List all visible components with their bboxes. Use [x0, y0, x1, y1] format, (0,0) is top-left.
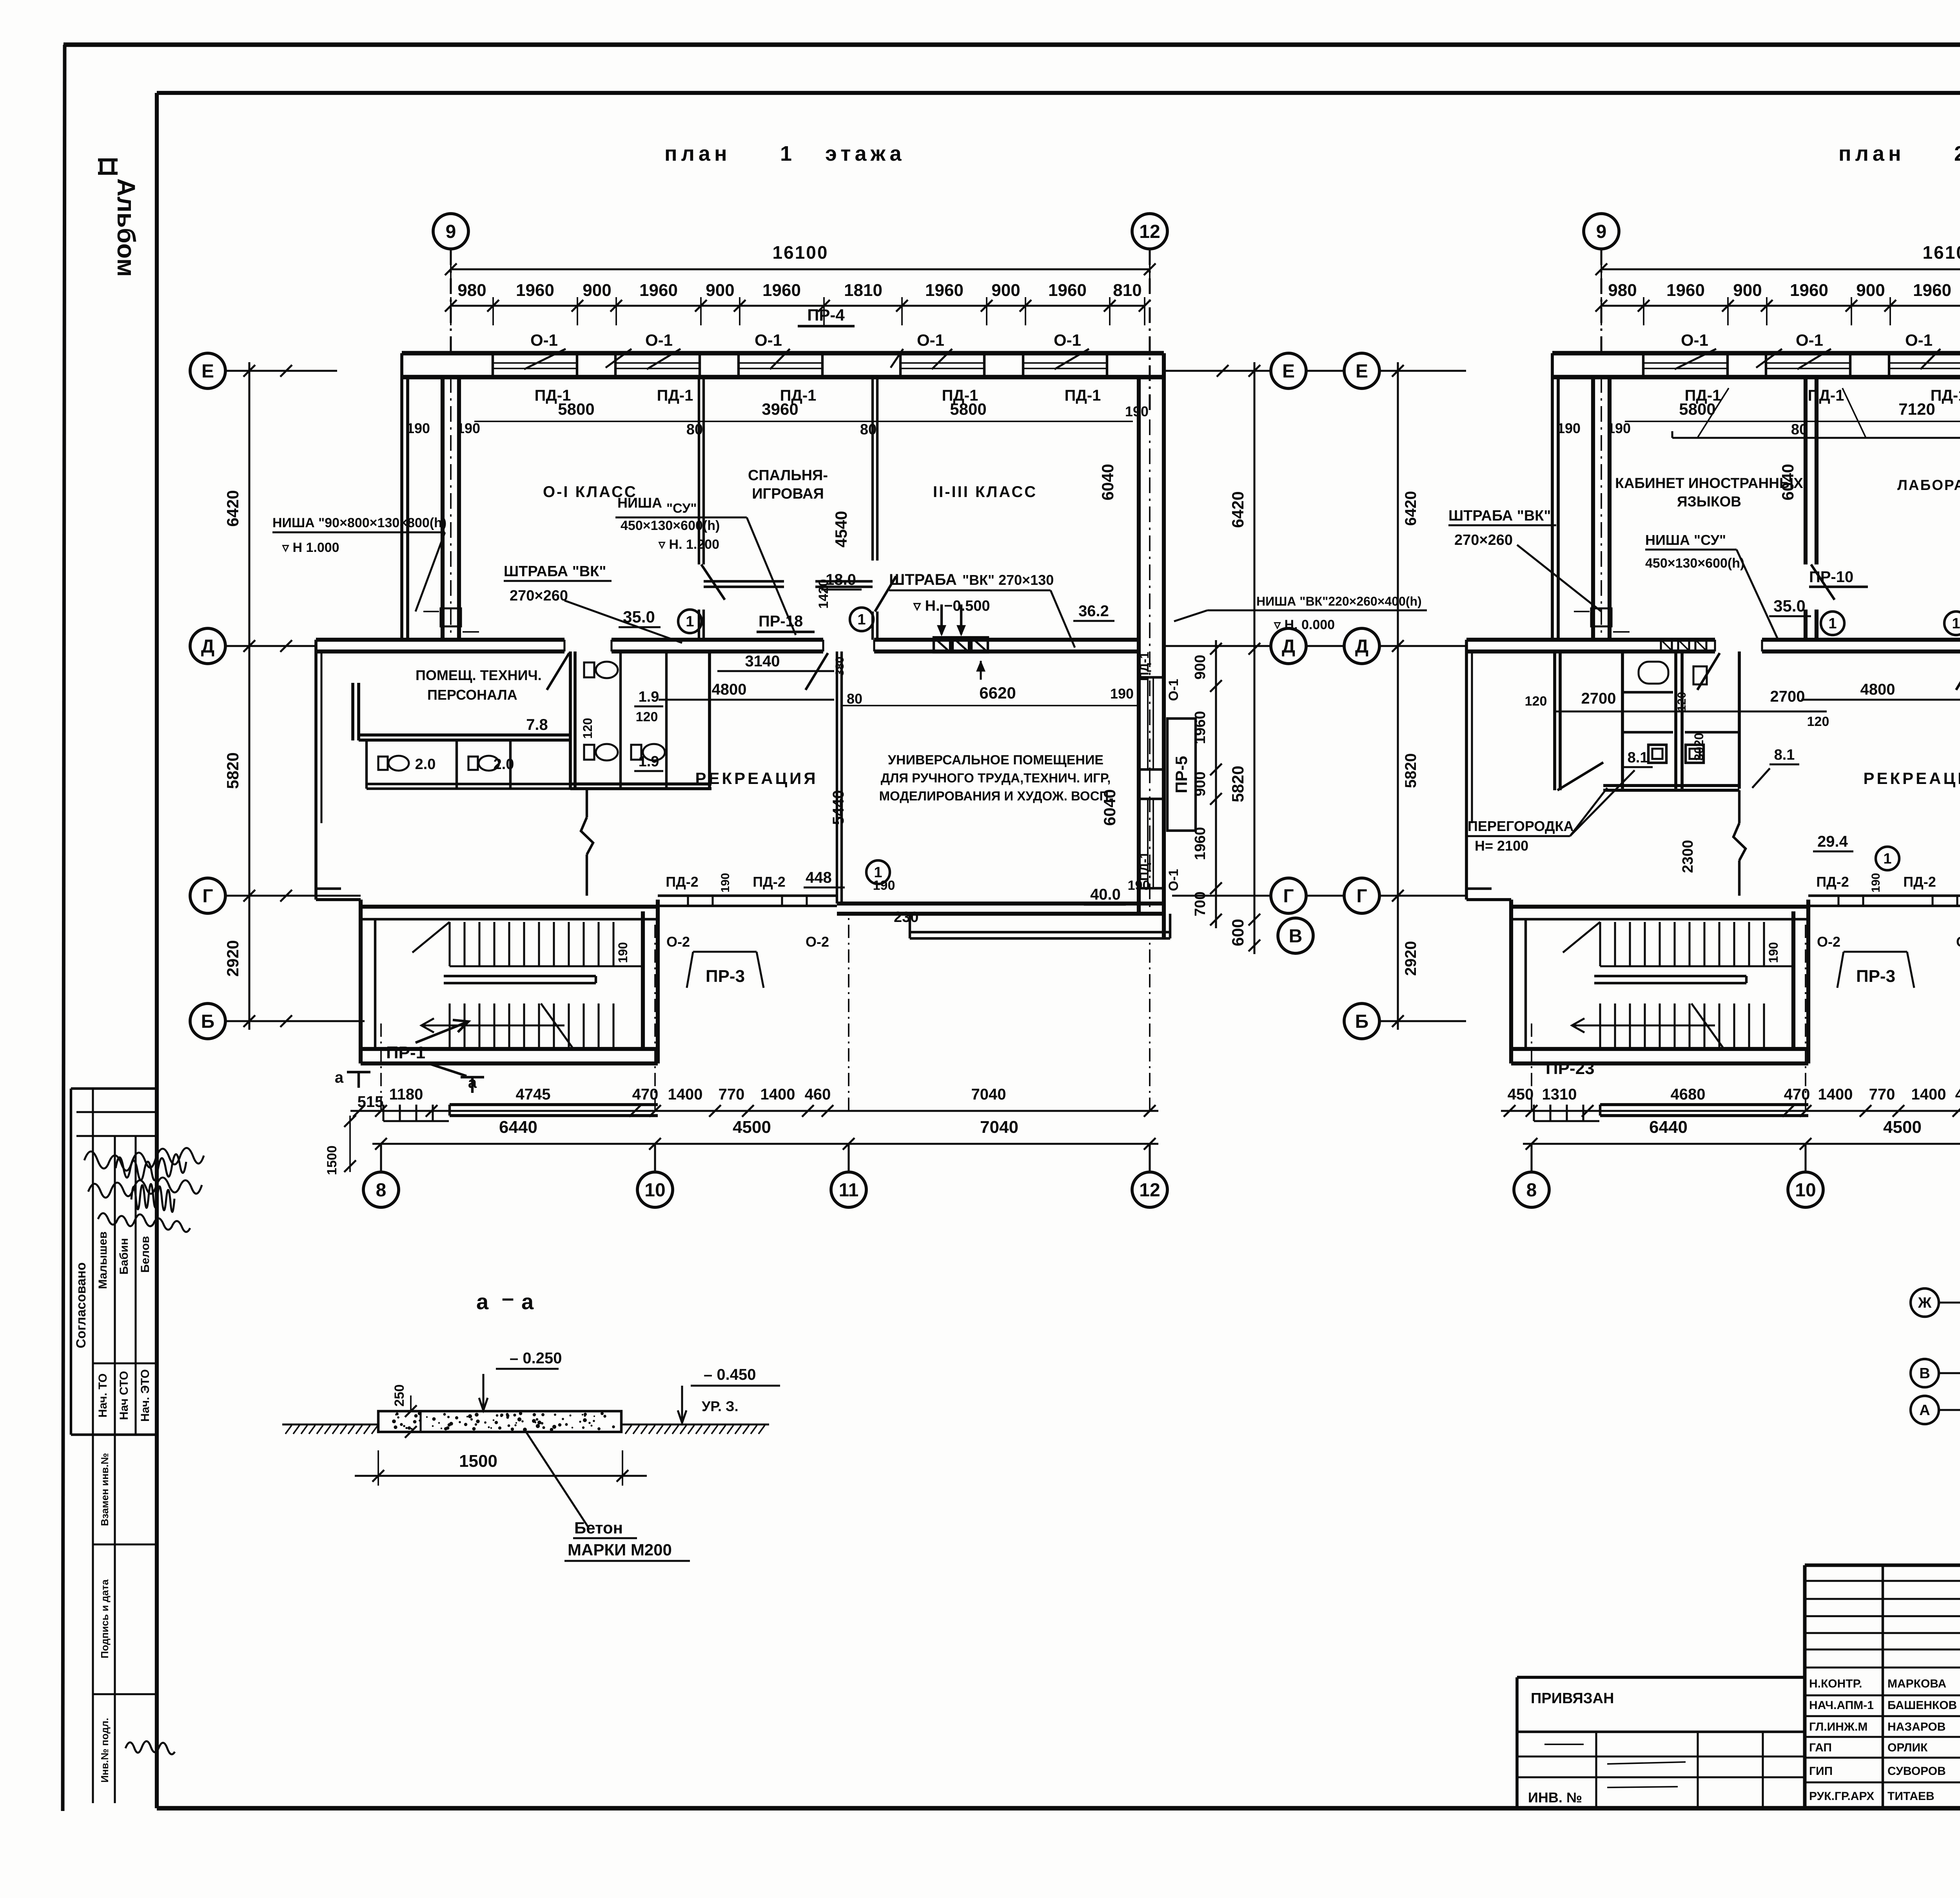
svg-text:ПР-1: ПР-1	[386, 1043, 425, 1062]
svg-text:СУВОРОВ: СУВОРОВ	[1887, 1765, 1946, 1778]
svg-text:1960: 1960	[516, 281, 554, 300]
svg-text:Е: Е	[201, 361, 214, 382]
door band ПД-2 between stair and room	[658, 895, 837, 897]
svg-text:О-1: О-1	[917, 331, 944, 349]
grid axis stubs bottom	[1531, 1019, 1532, 1111]
svg-text:ПР-3: ПР-3	[1856, 967, 1895, 986]
svg-text:Б: Б	[1355, 1011, 1369, 1032]
svg-text:ПД-2: ПД-2	[1816, 874, 1849, 890]
svg-text:770: 770	[1869, 1086, 1895, 1103]
svg-text:"СУ": "СУ"	[666, 501, 697, 516]
svg-text:1960: 1960	[639, 281, 678, 300]
svg-text:УНИВЕРСАЛЬНОЕ ПОМЕЩЕНИЕ: УНИВЕРСАЛЬНОЕ ПОМЕЩЕНИЕ	[888, 753, 1103, 768]
svg-text:ИГРОВАЯ: ИГРОВАЯ	[752, 486, 824, 502]
stair box top wall (Г)	[361, 905, 658, 909]
svg-text:МОДЕЛИРОВАНИЯ И ХУДОЖ. ВОСП.: МОДЕЛИРОВАНИЯ И ХУДОЖ. ВОСП.	[879, 789, 1112, 803]
wc fixtures lower cells	[378, 757, 388, 770]
svg-text:ПР-3: ПР-3	[706, 967, 745, 986]
svg-text:4680: 4680	[1671, 1086, 1706, 1103]
svg-text:4540: 4540	[832, 511, 850, 547]
stair box walls	[359, 900, 363, 1063]
svg-text:12: 12	[1139, 1180, 1160, 1201]
left exterior wall	[400, 353, 403, 640]
svg-text:ШТРАБА "ВК": ШТРАБА "ВК"	[504, 563, 606, 580]
svg-text:7.8: 7.8	[526, 716, 548, 733]
svg-text:10: 10	[1795, 1180, 1816, 1201]
exterior wall top, outer face	[1552, 351, 1960, 356]
svg-text:5800: 5800	[1679, 400, 1715, 418]
svg-text:А: А	[1919, 1402, 1930, 1419]
svg-text:Бетон: Бетон	[574, 1519, 623, 1537]
svg-text:ШТРАБА "ВК": ШТРАБА "ВК"	[1448, 508, 1551, 524]
svg-text:НАЧ.АПМ-1: НАЧ.АПМ-1	[1809, 1699, 1874, 1712]
svg-text:120: 120	[1807, 714, 1829, 729]
svg-text:36.2: 36.2	[1078, 602, 1109, 620]
svg-text:450×130×600(h): 450×130×600(h)	[621, 518, 720, 533]
entrance steps	[382, 1105, 384, 1121]
svg-text:8.1: 8.1	[1628, 749, 1648, 766]
title block main frame	[1805, 1564, 1960, 1567]
svg-text:Нач. ТО: Нач. ТО	[96, 1374, 109, 1418]
svg-text:– 0.450: – 0.450	[704, 1366, 756, 1383]
svg-text:О-1: О-1	[645, 331, 673, 349]
svg-text:план: план	[664, 142, 731, 165]
svg-text:2700: 2700	[1581, 690, 1616, 707]
wall on grid 9	[441, 377, 445, 640]
partition left of big bottom-right room	[836, 651, 838, 904]
overall dimension 16100	[1601, 268, 1960, 270]
stair box bottom wall	[361, 1047, 658, 1051]
room interior dims	[842, 705, 1139, 706]
svg-text:О-1: О-1	[1681, 331, 1708, 349]
wc fixtures	[584, 662, 594, 677]
left wall below Д	[1465, 640, 1468, 900]
svg-text:Альбом: Альбом	[112, 178, 140, 277]
svg-text:80: 80	[847, 691, 862, 707]
svg-text:1400: 1400	[760, 1086, 795, 1103]
svg-text:900: 900	[1856, 281, 1885, 300]
svg-text:▿ Н. 1.200: ▿ Н. 1.200	[658, 537, 719, 552]
lower footing line	[910, 931, 1170, 933]
plan1 left bubbles Е Д Г Б with axes	[190, 353, 225, 388]
svg-text:2300: 2300	[1680, 840, 1696, 873]
stair treads upper flight	[448, 922, 450, 966]
svg-text:КАБИНЕТ ИНОСТРАННЫХ: КАБИНЕТ ИНОСТРАННЫХ	[1615, 475, 1803, 491]
door openings thin lines on Д wall	[1714, 640, 1716, 651]
stair landing rails	[444, 975, 596, 977]
svg-text:5800: 5800	[950, 400, 986, 418]
svg-text:2700: 2700	[1770, 688, 1805, 705]
svg-text:Г: Г	[1356, 886, 1367, 907]
svg-text:СПАЛЬНЯ-: СПАЛЬНЯ-	[748, 467, 828, 484]
svg-text:ПР-23: ПР-23	[1546, 1059, 1595, 1078]
svg-text:980: 980	[1608, 281, 1637, 300]
svg-text:1960: 1960	[762, 281, 801, 300]
svg-text:1180: 1180	[389, 1086, 423, 1103]
svg-text:450: 450	[1508, 1086, 1534, 1103]
svg-text:О-1: О-1	[1166, 869, 1181, 891]
svg-text:5820: 5820	[1229, 766, 1247, 802]
ПР-5 box plan1	[1167, 719, 1196, 831]
svg-text:448: 448	[806, 869, 832, 886]
plan1 right chain 6420/5820/600	[1253, 362, 1255, 954]
svg-text:–: –	[502, 1285, 514, 1310]
svg-text:1960: 1960	[1666, 281, 1705, 300]
спальня interior walls	[704, 580, 784, 582]
svg-text:▿ Н. 0.000: ▿ Н. 0.000	[1274, 617, 1335, 632]
svg-text:1: 1	[1952, 615, 1960, 632]
svg-text:3960: 3960	[762, 400, 798, 418]
plan1 right chain 900/1960/900/1960/700	[1215, 640, 1217, 928]
svg-text:– 0.250: – 0.250	[510, 1350, 562, 1367]
bottom grid bubbles	[1514, 1172, 1549, 1207]
title block centre column grid	[1805, 1580, 1960, 1582]
grid 12 axis line	[1149, 249, 1151, 416]
left wall below Д	[314, 640, 318, 900]
stair arrow	[422, 1024, 564, 1026]
svg-text:700: 700	[1192, 891, 1209, 916]
entrance steps	[1533, 1105, 1535, 1121]
svg-text:ПР-4: ПР-4	[807, 306, 845, 324]
lower toilet cells	[365, 740, 368, 789]
svg-text:ПОМЕЩ. ТЕХНИЧ.: ПОМЕЩ. ТЕХНИЧ.	[416, 667, 542, 683]
svg-text:Согласовано: Согласовано	[74, 1262, 89, 1348]
svg-text:9: 9	[1596, 221, 1607, 242]
svg-text:▿ Н 1.000: ▿ Н 1.000	[282, 540, 339, 555]
штраба boxes on Д wall near toilets	[1661, 640, 1672, 651]
svg-text:Нач СТО: Нач СТО	[118, 1371, 131, 1420]
room width dims 5800/3960/5800	[474, 421, 1133, 422]
svg-text:11: 11	[839, 1180, 859, 1201]
svg-text:ПД-2: ПД-2	[666, 874, 699, 890]
svg-text:НИША: НИША	[617, 495, 662, 511]
stair treads lower flight	[1599, 1003, 1601, 1047]
svg-text:900: 900	[706, 281, 734, 300]
svg-text:1960: 1960	[1048, 281, 1087, 300]
svg-text:190: 190	[616, 942, 630, 963]
svg-text:6620: 6620	[979, 684, 1016, 702]
svg-text:1: 1	[857, 611, 866, 628]
bottom-right room bottom wall	[837, 902, 1164, 905]
svg-text:4800: 4800	[1860, 681, 1895, 698]
svg-text:2.0: 2.0	[415, 756, 436, 773]
svg-text:О-1: О-1	[755, 331, 782, 349]
svg-text:770: 770	[719, 1086, 745, 1103]
svg-text:2.0: 2.0	[494, 756, 514, 773]
svg-text:600: 600	[1229, 919, 1247, 946]
svg-text:МАРКИ М200: МАРКИ М200	[568, 1541, 672, 1559]
door leafs on partitions	[701, 564, 725, 600]
svg-text:О-2: О-2	[666, 934, 690, 950]
svg-text:ЛАБОРАТОРИЯ ФИЗИКИ: ЛАБОРАТОРИЯ ФИЗИКИ	[1897, 477, 1960, 493]
svg-text:120: 120	[1675, 692, 1688, 711]
corridor screen zigzag	[586, 789, 588, 817]
svg-text:Ж: Ж	[1918, 1295, 1932, 1311]
svg-text:ПД-1: ПД-1	[1137, 652, 1151, 681]
svg-text:Д: Д	[1282, 636, 1295, 657]
stair box bottom wall	[1511, 1047, 1808, 1051]
svg-text:250: 250	[392, 1384, 407, 1407]
svg-text:1810: 1810	[844, 281, 882, 300]
signature scribbles	[84, 1148, 204, 1171]
svg-text:120: 120	[1525, 694, 1547, 709]
toilet partitions	[619, 651, 622, 789]
svg-text:120: 120	[636, 709, 658, 724]
svg-text:6420: 6420	[1229, 491, 1247, 528]
stair box walls	[1509, 900, 1513, 1063]
svg-text:1500: 1500	[325, 1145, 339, 1175]
door leafs on Д wall openings	[547, 653, 569, 690]
svg-text:2: 2	[1954, 142, 1960, 165]
svg-text:Подпись и дата: Подпись и дата	[99, 1579, 111, 1658]
exterior wall top, inner face	[402, 375, 1164, 379]
svg-text:6040: 6040	[1100, 789, 1119, 826]
svg-text:Бабин: Бабин	[118, 1238, 131, 1274]
svg-text:ГАП: ГАП	[1809, 1741, 1832, 1754]
svg-text:ИНВ. №: ИНВ. №	[1528, 1789, 1582, 1805]
svg-text:Инв.№ подл.: Инв.№ подл.	[99, 1718, 111, 1782]
stair treads upper flight	[1599, 922, 1601, 966]
svg-text:Нач. ЭТО: Нач. ЭТО	[139, 1369, 152, 1422]
svg-text:ПД-1: ПД-1	[1137, 852, 1151, 881]
svg-text:6440: 6440	[1649, 1118, 1688, 1137]
ПР-3 label box	[1844, 951, 1907, 953]
svg-text:900: 900	[1192, 655, 1209, 679]
svg-text:ПД-1: ПД-1	[1808, 387, 1844, 404]
svg-text:а: а	[521, 1289, 534, 1314]
ПР-3 label box	[693, 951, 757, 953]
svg-text:"ВК" 270×130: "ВК" 270×130	[962, 572, 1054, 588]
svg-text:6440: 6440	[499, 1118, 537, 1137]
plan2 left bubbles Е Д Г Б	[1344, 353, 1379, 388]
corner walls left of stair	[316, 898, 361, 901]
svg-text:ПЕРСОНАЛА: ПЕРСОНАЛА	[427, 687, 517, 703]
svg-text:план: план	[1838, 142, 1905, 165]
section marks / bottom dim chains	[1501, 1110, 1960, 1112]
svg-text:190: 190	[1869, 873, 1882, 893]
plan2 ПР-4 shelf line	[1672, 437, 1960, 439]
svg-text:190: 190	[407, 420, 430, 436]
svg-text:ПД-2: ПД-2	[1903, 874, 1936, 890]
porch / entrance	[450, 1103, 658, 1106]
ground line and hatch right	[622, 1423, 769, 1425]
svg-text:120: 120	[581, 718, 595, 739]
door leafs on partitions	[1811, 564, 1835, 600]
svg-text:ЯЗЫКОВ: ЯЗЫКОВ	[1677, 494, 1741, 510]
svg-text:29.4: 29.4	[1817, 833, 1848, 850]
windows in top wall	[1643, 362, 1728, 364]
bottom grid bubbles	[363, 1172, 399, 1207]
grid axis stubs bottom	[380, 1019, 382, 1111]
svg-text:Н= 2100: Н= 2100	[1475, 838, 1528, 854]
grid E axis stub right	[1164, 370, 1246, 372]
svg-text:Д: Д	[201, 636, 214, 657]
svg-text:80: 80	[860, 421, 877, 438]
svg-text:6420: 6420	[223, 490, 242, 526]
svg-text:О-1: О-1	[1054, 331, 1081, 349]
svg-text:ГЛ.ИНЖ.М: ГЛ.ИНЖ.М	[1809, 1720, 1867, 1733]
svg-text:Б: Б	[201, 1011, 215, 1032]
svg-text:ПР-5: ПР-5	[1172, 756, 1191, 793]
svg-text:8: 8	[1526, 1180, 1537, 1201]
toilet core walls	[1621, 651, 1624, 789]
svg-text:1: 1	[780, 142, 792, 165]
svg-text:▿ Н. −0.500: ▿ Н. −0.500	[913, 598, 990, 614]
windows in right wall	[1147, 677, 1149, 769]
left stamp column verticals	[92, 1089, 94, 1435]
svg-text:16100: 16100	[773, 242, 829, 263]
interior partition top rooms B	[871, 377, 874, 561]
svg-text:1.9: 1.9	[639, 753, 659, 770]
svg-text:1960: 1960	[925, 281, 964, 300]
svg-text:460: 460	[805, 1086, 831, 1103]
svg-text:5820: 5820	[1402, 753, 1419, 788]
section concrete strip	[378, 1411, 621, 1432]
grid 9 axis line	[1600, 249, 1602, 355]
svg-text:1: 1	[874, 864, 882, 881]
svg-text:1960: 1960	[1790, 281, 1828, 300]
svg-text:В: В	[1919, 1365, 1930, 1382]
svg-text:О-2: О-2	[1817, 934, 1840, 950]
svg-text:Г: Г	[1283, 886, 1294, 907]
svg-text:7040: 7040	[971, 1086, 1006, 1103]
plan1 grid bubble 9 top	[433, 214, 468, 249]
svg-text:II-III КЛАСС: II-III КЛАСС	[933, 483, 1037, 501]
svg-text:190: 190	[1110, 686, 1134, 702]
svg-text:7040: 7040	[980, 1118, 1018, 1137]
svg-text:Д: Д	[1355, 636, 1368, 657]
svg-text:этажа: этажа	[825, 142, 906, 165]
toilet block plan2: left partition	[1553, 651, 1556, 790]
svg-text:Взамен инв.№: Взамен инв.№	[99, 1453, 111, 1526]
plan1 right bubbles Е Д Г В	[1271, 353, 1306, 388]
svg-text:ДЛЯ РУЧНОГО ТРУДА,ТЕХНИЧ. ИГР,: ДЛЯ РУЧНОГО ТРУДА,ТЕХНИЧ. ИГР,	[881, 771, 1111, 785]
stair box top wall (Г)	[1511, 905, 1808, 909]
corner walls left of stair	[1466, 898, 1511, 901]
svg-text:1400: 1400	[668, 1086, 703, 1103]
interior partition top rooms A	[698, 377, 700, 564]
niche in grid-9 wall	[1591, 608, 1612, 626]
svg-text:8.1: 8.1	[1774, 747, 1795, 763]
lower stamp boxes	[92, 1435, 94, 1803]
plan2 grid bubble 9 top	[1584, 214, 1619, 249]
overall dimension 16100	[451, 268, 1150, 270]
niche in grid-9 wall	[441, 608, 461, 626]
svg-text:1: 1	[1883, 851, 1891, 867]
svg-text:УР. З.: УР. З.	[702, 1398, 739, 1414]
exterior wall top, inner face	[1552, 375, 1960, 379]
porch / entrance	[1600, 1103, 1808, 1106]
sheet outer edge top	[64, 42, 1960, 47]
svg-text:НИША "СУ": НИША "СУ"	[1645, 532, 1726, 548]
fixtures: bath oval, wc	[1639, 662, 1668, 684]
svg-text:О-1: О-1	[1905, 331, 1933, 349]
svg-text:10: 10	[644, 1180, 665, 1201]
svg-text:1: 1	[686, 613, 694, 630]
svg-text:980: 980	[457, 281, 486, 300]
svg-text:40.0: 40.0	[1090, 886, 1121, 903]
svg-text:80: 80	[686, 421, 703, 438]
svg-text:РЕКРЕАЦИЯ: РЕКРЕАЦИЯ	[1863, 769, 1960, 788]
svg-text:12: 12	[1139, 221, 1160, 242]
svg-text:РУК.ГР.АРХ: РУК.ГР.АРХ	[1809, 1790, 1874, 1803]
svg-text:ПР-10: ПР-10	[1809, 568, 1853, 586]
svg-text:ГИП: ГИП	[1809, 1765, 1833, 1778]
interior partition top rooms A	[1804, 377, 1808, 564]
svg-text:2920: 2920	[1402, 941, 1419, 976]
wall on grid 9	[1591, 377, 1595, 640]
window dimension chain 980/1960/900...	[1601, 305, 1960, 307]
svg-text:900: 900	[583, 281, 611, 300]
svg-text:1310: 1310	[1542, 1086, 1577, 1103]
svg-text:5820: 5820	[223, 752, 242, 789]
svg-text:1400: 1400	[1818, 1086, 1853, 1103]
svg-text:ПД-1: ПД-1	[1065, 387, 1101, 404]
svg-text:О-2: О-2	[1956, 934, 1960, 950]
svg-text:Н.КОНТР.: Н.КОНТР.	[1809, 1677, 1862, 1690]
key plan bubbles	[1911, 1288, 1939, 1317]
svg-text:190: 190	[1766, 942, 1780, 963]
svg-text:БАШЕНКОВ: БАШЕНКОВ	[1887, 1699, 1957, 1712]
stair landing rails	[1594, 975, 1746, 977]
svg-text:810: 810	[1113, 281, 1142, 300]
small up-tick below wall	[980, 661, 982, 680]
svg-text:35.0: 35.0	[623, 608, 655, 626]
svg-text:8: 8	[376, 1180, 387, 1201]
svg-text:НИША "90×800×130×800(h): НИША "90×800×130×800(h)	[272, 515, 446, 530]
svg-text:190: 190	[1557, 420, 1581, 436]
svg-text:4500: 4500	[733, 1118, 771, 1137]
svg-text:4800: 4800	[712, 681, 747, 698]
svg-text:ПЕРЕГОРОДКА: ПЕРЕГОРОДКА	[1468, 818, 1574, 834]
svg-text:270×260: 270×260	[510, 588, 568, 604]
svg-text:2920: 2920	[223, 940, 242, 976]
inner frame	[157, 91, 1960, 95]
svg-text:Малышев: Малышев	[96, 1232, 109, 1289]
svg-text:35.0: 35.0	[1773, 597, 1806, 615]
svg-text:3020: 3020	[1692, 733, 1706, 760]
svg-text:а: а	[476, 1289, 489, 1314]
dim 1500	[377, 1450, 379, 1486]
svg-text:а: а	[335, 1069, 344, 1086]
room width dims 5800/3960/5800	[1625, 421, 1960, 422]
штраба boxes on Д wall	[934, 637, 950, 652]
svg-text:16100: 16100	[1923, 242, 1960, 263]
door openings thin lines on Д wall	[563, 640, 565, 651]
svg-text:О-2: О-2	[806, 934, 829, 950]
svg-text:ШТРАБА: ШТРАБА	[889, 571, 957, 588]
door band ПД-2 between stair and room	[1808, 895, 1960, 897]
svg-text:6040: 6040	[1098, 464, 1117, 500]
svg-text:1400: 1400	[1911, 1086, 1946, 1103]
svg-text:ПР-18: ПР-18	[759, 613, 803, 630]
svg-text:5440: 5440	[830, 790, 847, 825]
svg-text:460: 460	[1955, 1086, 1960, 1103]
svg-text:ТИТАЕВ: ТИТАЕВ	[1887, 1790, 1935, 1803]
arrows above штраба	[940, 604, 943, 634]
svg-text:4745: 4745	[516, 1086, 551, 1103]
svg-text:ПД-1: ПД-1	[657, 387, 693, 404]
svg-text:НИША "ВК"220×260×400(h): НИША "ВК"220×260×400(h)	[1256, 594, 1422, 608]
windows in top wall	[493, 362, 577, 364]
svg-text:1.9: 1.9	[639, 689, 659, 705]
svg-text:900: 900	[991, 281, 1020, 300]
svg-text:МАРКОВА: МАРКОВА	[1887, 1677, 1946, 1690]
svg-text:1500: 1500	[459, 1452, 497, 1471]
svg-text:Белов: Белов	[139, 1236, 152, 1273]
dim line 120/2700/2700/120	[1555, 710, 1827, 712]
grid bubble 12 top	[1132, 214, 1167, 249]
